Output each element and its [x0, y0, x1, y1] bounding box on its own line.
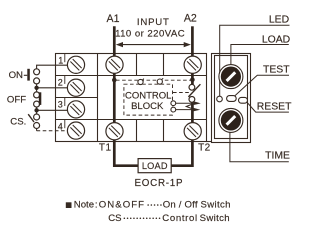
svg-text:110 or 220VAC: 110 or 220VAC — [115, 29, 185, 40]
svg-text:A1: A1 — [107, 13, 120, 25]
link c4 to c5 — [36, 107, 38, 115]
svg-text:ON: ON — [9, 70, 23, 81]
front panel outer — [212, 54, 251, 143]
ON switch contact top — [34, 69, 40, 75]
wire to terminal 2 — [38, 87, 68, 89]
svg-text:A2: A2 — [184, 13, 197, 25]
bottom row divider 1 — [136, 120, 138, 142]
junction dot switch 2 — [34, 108, 38, 112]
svg-text:4: 4 — [58, 122, 63, 132]
knob TIME dial — [219, 108, 243, 132]
svg-text:CONTROL: CONTROL — [125, 90, 171, 101]
terminal screw 1 — [67, 56, 84, 73]
svg-text:TEST: TEST — [263, 64, 290, 75]
svg-text:Note: Note — [74, 200, 94, 211]
callout LED — [220, 25, 290, 96]
callout TIME — [230, 133, 289, 162]
row line bottom — [56, 119, 207, 121]
wire ON switch to terminal 1 — [37, 65, 69, 69]
junction dot switch 1 — [34, 86, 38, 90]
CS switch arm — [28, 114, 34, 122]
relay contact lower circle — [189, 97, 195, 103]
callout RESET — [247, 102, 289, 112]
relay contact arm — [188, 84, 200, 97]
svg-text:LED: LED — [269, 14, 289, 25]
svg-text:INPUT: INPUT — [137, 17, 170, 28]
link line box to panel — [207, 141, 212, 143]
LED lamp — [217, 96, 223, 102]
svg-text:EOCR-1P: EOCR-1P — [134, 178, 183, 189]
row line top — [56, 75, 207, 77]
left column separator — [97, 54, 99, 142]
terminal screw 4 — [67, 122, 84, 139]
svg-text:BLOCK: BLOCK — [131, 101, 164, 112]
svg-text:OFF: OFF — [7, 94, 26, 105]
RESET button — [239, 97, 248, 103]
bottom row divider 2 — [163, 120, 165, 142]
svg-text:ON&OFF: ON&OFF — [99, 200, 145, 211]
main terminal box outline — [56, 54, 207, 142]
svg-text:1: 1 — [58, 56, 63, 66]
note leader dots 2 — [124, 217, 160, 219]
knob LOAD dial — [219, 65, 243, 89]
wire to terminal 3 — [38, 109, 68, 111]
LOAD box — [138, 159, 171, 173]
actuator arrow 1 — [176, 101, 201, 105]
note leader dots 1 — [148, 204, 161, 206]
number ticks — [64, 54, 66, 128]
actuator circle 2 — [171, 107, 176, 112]
terminal screw T1 — [106, 123, 123, 140]
svg-text:Switch: Switch — [200, 213, 230, 224]
svg-text:Switch: Switch — [201, 200, 231, 211]
terminal screw A2 — [184, 56, 201, 73]
plug circle a on dashed line — [138, 79, 144, 85]
link c2 to c3 — [36, 84, 38, 93]
svg-text:LOAD: LOAD — [262, 34, 290, 45]
OFF switch contact bottom — [34, 101, 40, 107]
wire CS to terminal 4 (dashed) — [36, 128, 38, 131]
svg-text:CS.: CS. — [10, 117, 26, 128]
wire A1 (thick) — [114, 26, 138, 165]
svg-text:3: 3 — [58, 100, 63, 110]
svg-text:T2: T2 — [198, 143, 211, 154]
terminal screw 3 — [67, 101, 84, 118]
ON switch contact bottom — [34, 78, 40, 84]
dashed control line (top) — [116, 79, 191, 81]
actuator arrow 2 — [176, 108, 200, 112]
terminal screw T2 — [184, 123, 201, 140]
relay contact upper circle — [189, 84, 195, 90]
ON switch bar — [27, 69, 30, 81]
terminal screw 2 — [67, 79, 84, 96]
svg-text:Control: Control — [162, 213, 197, 224]
svg-text:2: 2 — [58, 78, 63, 88]
ON label tick — [24, 74, 28, 76]
terminal numbers 1-4 — [58, 56, 63, 132]
svg-text::: : — [95, 200, 98, 211]
wire A2 (thick, upper segment) — [191, 26, 194, 84]
actuator circle 1 — [171, 101, 176, 106]
junction dot A2 — [190, 78, 195, 83]
CS switch contact top — [34, 114, 40, 120]
input range arrow — [116, 42, 191, 47]
svg-text:CS: CS — [108, 213, 121, 224]
CS switch contact bottom — [34, 123, 40, 129]
top row divider 2 — [163, 54, 165, 76]
svg-text:RESET: RESET — [257, 101, 292, 112]
OFF switch contact top — [34, 92, 40, 98]
callout LOAD — [231, 45, 289, 65]
wire A2 (thick, lower segment to T2/LOAD) — [171, 102, 192, 166]
svg-text:T1: T1 — [99, 143, 112, 154]
left column row 2/3 line — [56, 97, 98, 99]
plug circle b on dashed line — [157, 78, 163, 84]
open arrowhead — [186, 105, 191, 109]
front panel inner — [215, 56, 248, 139]
callout TEST — [233, 75, 289, 97]
junction dot A1 — [112, 78, 117, 83]
top row divider 1 — [136, 54, 138, 76]
control block dashed box — [124, 84, 173, 115]
svg-text:TIME: TIME — [265, 151, 290, 162]
dashed link to contact arm — [173, 92, 190, 94]
svg-text:LOAD: LOAD — [142, 161, 168, 171]
control block label — [125, 90, 171, 112]
terminal screw A1 — [106, 56, 123, 73]
OFF switch bar — [39, 92, 42, 105]
svg-text:On / Off: On / Off — [163, 200, 198, 211]
TEST button — [227, 96, 237, 102]
note bullet — [66, 202, 72, 208]
